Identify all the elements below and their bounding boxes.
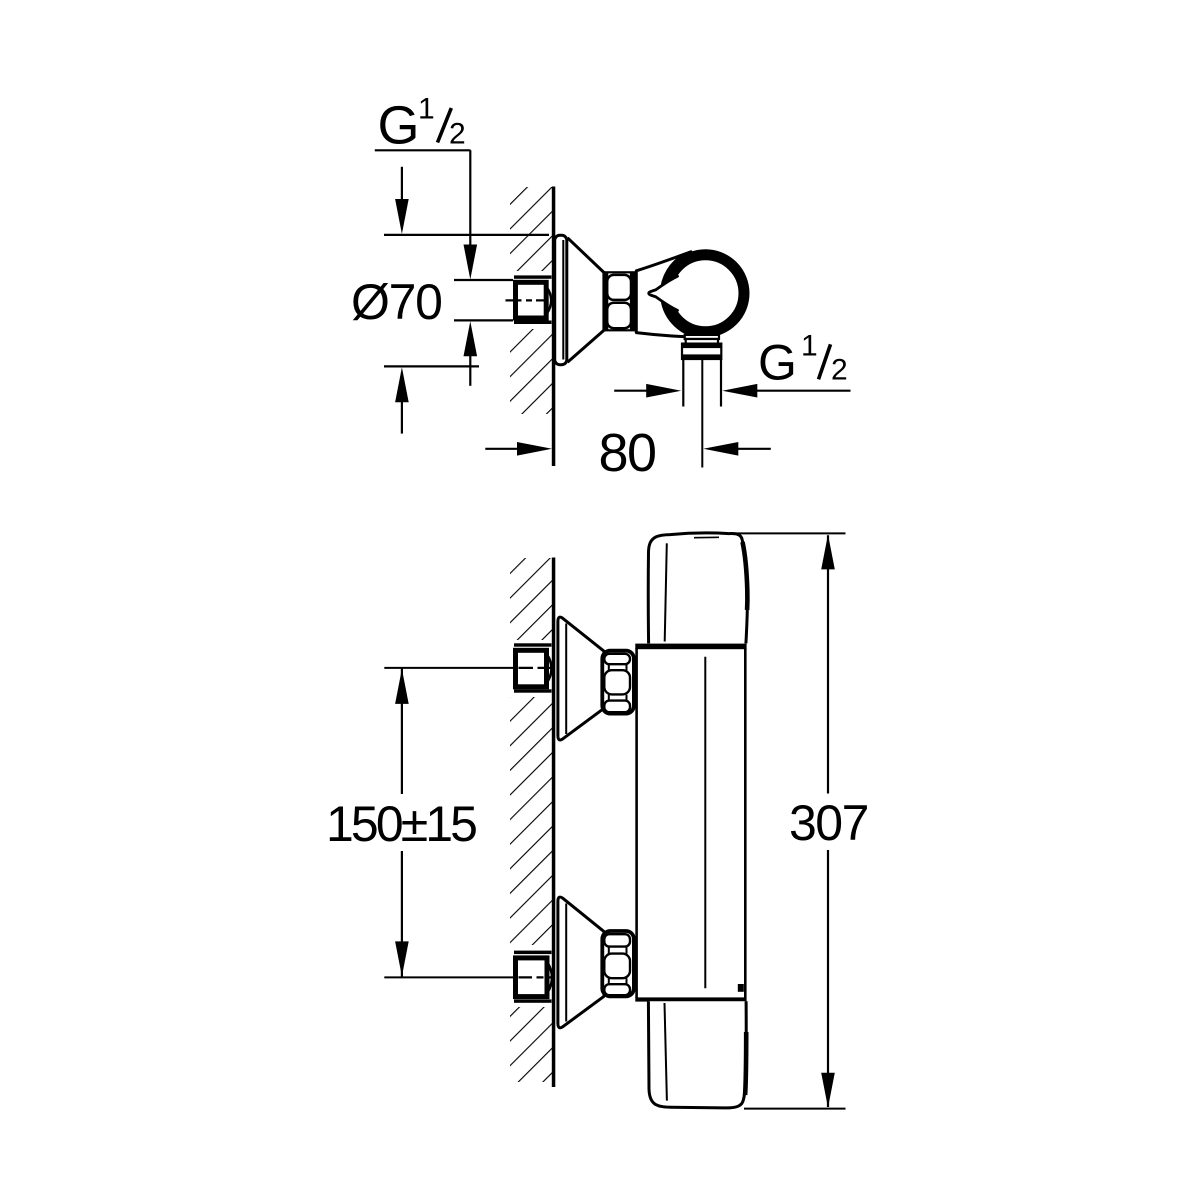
svg-text:150±15: 150±15 bbox=[326, 796, 476, 852]
svg-text:G: G bbox=[758, 335, 796, 391]
svg-text:80: 80 bbox=[599, 423, 656, 483]
svg-text:G: G bbox=[378, 96, 419, 156]
svg-text:307: 307 bbox=[789, 795, 868, 851]
svg-text:2: 2 bbox=[831, 354, 848, 387]
svg-text:2: 2 bbox=[449, 118, 466, 151]
svg-text:Ø70: Ø70 bbox=[351, 274, 442, 330]
svg-text:1: 1 bbox=[801, 330, 818, 363]
svg-text:1: 1 bbox=[418, 93, 435, 126]
